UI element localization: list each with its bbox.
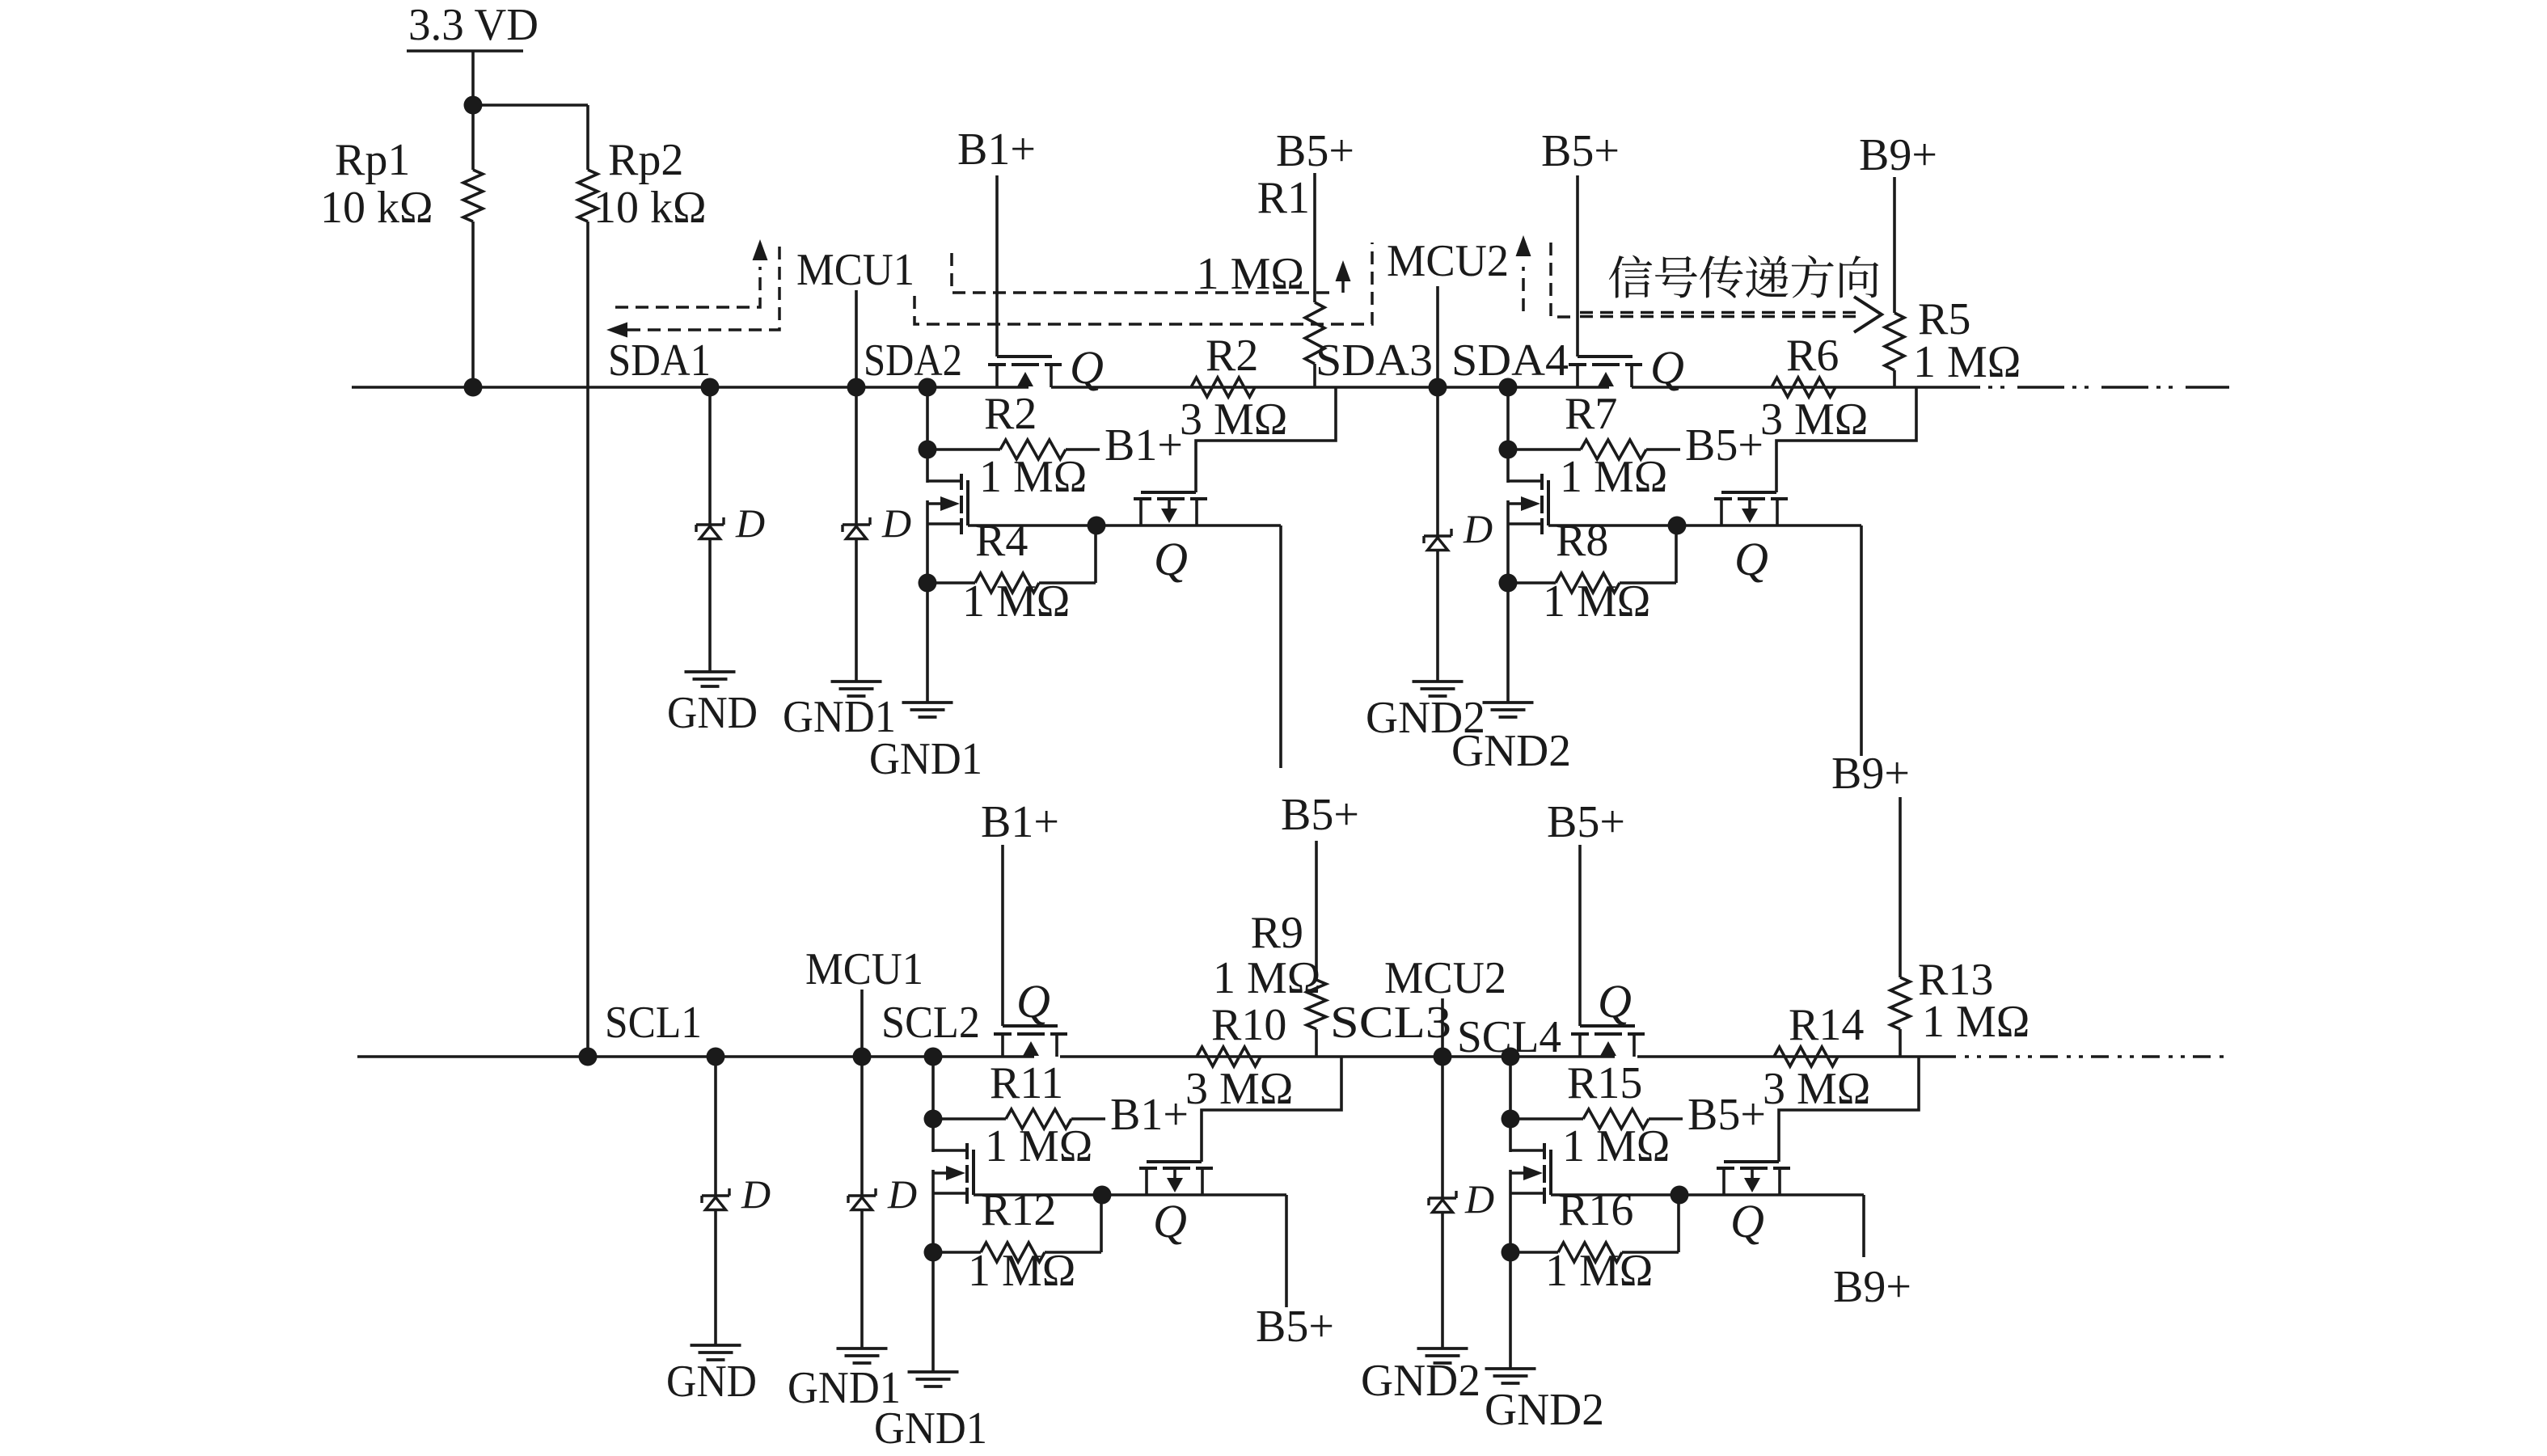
node SDA2-cell gate rail <box>1088 517 1106 535</box>
svg-text:Q: Q <box>1154 533 1188 585</box>
resistor R16 lead left <box>1510 1251 1558 1254</box>
svg-text:R16: R16 <box>1558 1185 1633 1235</box>
wire SDA2-cell M2 drain drop <box>1279 525 1282 768</box>
transistor Q (SCL4-cell left) channel <box>1543 1143 1546 1204</box>
transistor Q (SDA2-cell right) channel <box>1134 497 1207 500</box>
svg-text:B9+: B9+ <box>1833 1262 1911 1312</box>
resistor R8 lead right <box>1620 525 1676 583</box>
wire SDA4-cell M2 drain drop <box>1860 525 1863 756</box>
wire SCL4-cell branch lower <box>1509 1170 1512 1369</box>
svg-text:D: D <box>1463 506 1493 551</box>
wire diode D to GND2 <box>1436 550 1439 682</box>
wire B9+ to R13 <box>1899 797 1902 977</box>
svg-text:D: D <box>1464 1176 1494 1222</box>
transistor Q (SDA4-cell pass) bulk arrow <box>1598 372 1614 386</box>
svg-text:R4: R4 <box>975 516 1028 566</box>
wire MCU1 to SDA bus <box>855 290 858 387</box>
ground GND1 (SCL2 cell) <box>908 1372 959 1386</box>
svg-text:Q: Q <box>1598 975 1632 1028</box>
transistor Q (SCL2-cell right) bulk stem <box>1173 1170 1176 1178</box>
node SCL1 diode branch <box>707 1048 725 1066</box>
svg-text:B5+: B5+ <box>1276 126 1354 176</box>
dashed long path SDA2 to MCU2 <box>914 243 1372 324</box>
ground GND2 (SCL4 cell) <box>1485 1369 1536 1383</box>
node MCU1 on SDA bus <box>847 378 866 397</box>
wire diode D to GND (SCL1) <box>714 1209 717 1345</box>
SCL bus segment 3 <box>1637 1055 1938 1058</box>
transistor Q (SCL4-cell pass) gate bar <box>1580 1024 1635 1028</box>
wire SCL1 node to diode D <box>714 1057 717 1196</box>
svg-text:R2: R2 <box>984 389 1037 439</box>
wire Rp1 upper lead <box>471 105 475 170</box>
svg-text:3.3 VD: 3.3 VD <box>408 0 539 50</box>
SCL bus segment 2 (SCL3/SCL4) <box>1060 1055 1615 1058</box>
svg-text:R9: R9 <box>1251 908 1303 958</box>
SCL bus dash-dot continuation <box>1938 1055 2229 1058</box>
transistor Q (SDA4-cell left) drain tap <box>1508 479 1542 483</box>
SCL bus segment 1 (SCL1/SCL2) <box>357 1055 1034 1058</box>
svg-text:1 MΩ: 1 MΩ <box>1562 1121 1670 1171</box>
resistor R12 lead right <box>1045 1195 1101 1252</box>
svg-text:GND: GND <box>667 688 758 738</box>
wire SCL2-cell branch lower <box>931 1170 935 1372</box>
svg-text:SDA4: SDA4 <box>1451 336 1569 386</box>
node SCL2-cell R12 left <box>924 1243 943 1262</box>
wire SDA4-cell pass gate feed <box>1576 175 1579 357</box>
svg-text:SCL4: SCL4 <box>1457 1012 1561 1062</box>
transistor Q (SDA4-cell left) bulk arrow <box>1508 496 1540 511</box>
dashed arrow row 1 toward right <box>1580 311 1856 314</box>
transistor Q (SCL2-cell left) channel <box>965 1143 969 1204</box>
ground GND2 (SDA4 cell) <box>1483 703 1534 717</box>
wire R1 to SDA bus <box>1313 364 1316 387</box>
node SDA3 <box>1429 378 1447 397</box>
transistor Q (SCL4-cell left) gate bar <box>1549 1150 1552 1195</box>
svg-text:MCU1: MCU1 <box>796 245 914 295</box>
transistor Q (SCL4-cell right) bulk arrow <box>1744 1178 1760 1192</box>
wire Rp2 lower lead crossing SDA bus to SCL bus <box>586 222 589 1057</box>
resistor R12 lead left <box>933 1251 981 1254</box>
transistor Q (SCL2-cell left) source tap <box>933 1192 967 1195</box>
wire Rp1 lower lead to SDA bus <box>471 222 475 387</box>
wire SDA2-cell branch upper <box>926 387 929 483</box>
svg-text:Rp2: Rp2 <box>608 135 683 185</box>
resistor Rp1 <box>463 170 483 222</box>
wire SCL3 node to diode D <box>1441 1057 1444 1198</box>
node Rp1 on SDA bus <box>464 378 483 397</box>
wire SCL2-cell M2 gate feed step <box>1202 1057 1341 1162</box>
resistor R14 (3 MOhm) on bus <box>1774 1047 1838 1066</box>
dashed corner right of MCU2 <box>1551 243 1577 317</box>
svg-text:B1+: B1+ <box>1110 1090 1189 1140</box>
svg-text:R10: R10 <box>1211 1000 1286 1050</box>
wire SDA4-cell branch lower <box>1506 500 1510 703</box>
svg-text:R11: R11 <box>990 1058 1063 1108</box>
transistor Q (SCL4-cell right) gate bar <box>1724 1160 1779 1163</box>
node SDA4-cell gate rail <box>1668 517 1687 535</box>
transistor Q (SDA2-cell pass) bulk arrow <box>1017 372 1033 386</box>
svg-text:1 MΩ: 1 MΩ <box>1560 452 1667 502</box>
transistor Q (SCL2-cell left) bulk arrow <box>933 1166 965 1180</box>
SDA bus segment 3 <box>1632 386 1933 389</box>
dashed arrowhead up into MCU1 <box>753 239 768 260</box>
transistor Q (SCL2-cell pass) bulk arrow <box>1023 1041 1039 1056</box>
wire node to Rp2 branch <box>473 103 588 107</box>
svg-text:B5+: B5+ <box>1547 797 1625 847</box>
resistor R7 lead left <box>1508 448 1581 451</box>
node MCU1 on SCL bus <box>853 1048 872 1066</box>
svg-text:SDA1: SDA1 <box>608 336 711 386</box>
ground GND2 (SCL3) <box>1417 1348 1468 1363</box>
svg-text:D: D <box>741 1171 771 1217</box>
resistor R2 lead left <box>927 448 1000 451</box>
svg-text:R14: R14 <box>1789 1000 1864 1050</box>
wire B9+ to R5 <box>1893 177 1896 313</box>
svg-text:MCU1: MCU1 <box>805 944 923 994</box>
node SDA2-cell R-divider <box>919 441 937 459</box>
dashed arrowhead up toward MCU2 side <box>1336 260 1351 281</box>
transistor Q (SCL2-cell right) left terminal <box>1145 1170 1148 1195</box>
wire SDA1 node to diode D <box>708 387 712 525</box>
svg-text:B1+: B1+ <box>957 124 1036 175</box>
wire SCL4-cell pass gate feed <box>1578 845 1582 1026</box>
wire MCU2 to SCL bus <box>1441 998 1444 1057</box>
svg-text:R6: R6 <box>1786 331 1839 381</box>
dashed signal path MCU2 up arrow <box>1516 235 1531 311</box>
dashed stem of up arrow <box>1341 281 1345 293</box>
wire SDA2-cell M2 gate feed step <box>1196 387 1336 492</box>
transistor Q (SCL4-cell pass) left terminal <box>1578 1036 1582 1057</box>
transistor Q (SCL4-cell left) bulk arrow <box>1510 1166 1543 1180</box>
svg-text:R7: R7 <box>1565 389 1617 439</box>
wire SCL4-cell M2 gate feed step <box>1779 1057 1919 1162</box>
wire Rp2 upper lead <box>586 105 589 170</box>
transistor Q (SDA2-cell pass) gate bar <box>997 355 1052 358</box>
svg-text:1 MΩ: 1 MΩ <box>1913 337 2021 387</box>
svg-text:GND1: GND1 <box>874 1403 987 1454</box>
svg-text:B9+: B9+ <box>1831 749 1910 799</box>
SDA bus segment 1 (SDA1/SDA2) <box>352 386 1029 389</box>
wire SCL2-cell M2 drain drop <box>1285 1195 1288 1307</box>
svg-text:SCL2: SCL2 <box>881 998 980 1048</box>
svg-text:B9+: B9+ <box>1859 130 1937 180</box>
svg-text:Q: Q <box>1730 1195 1764 1247</box>
node SCL3 <box>1434 1048 1452 1066</box>
transistor Q (SDA2-cell left) channel <box>960 474 963 534</box>
wire SCL4-cell branch upper <box>1509 1057 1512 1152</box>
wire SDA2-cell gate rail <box>968 524 1281 527</box>
transistor Q (SCL4-cell right) bulk stem <box>1751 1170 1754 1178</box>
resistor R15 (1 MOhm) <box>1583 1109 1649 1129</box>
wire B5+ to R9 <box>1315 841 1318 980</box>
transistor Q (SCL2-cell pass) channel <box>994 1032 1067 1036</box>
svg-text:Q: Q <box>1153 1195 1187 1247</box>
svg-text:D: D <box>887 1171 917 1217</box>
resistor R11 lead right <box>1071 1117 1105 1120</box>
wire R9 to SCL bus <box>1315 1029 1318 1057</box>
node SCL2 branch <box>924 1048 943 1066</box>
node SDA4-cell R-divider <box>1499 441 1518 459</box>
svg-text:GND1: GND1 <box>869 734 982 784</box>
node SCL2-cell R-divider <box>924 1110 943 1129</box>
svg-text:1 MΩ: 1 MΩ <box>968 1246 1075 1296</box>
transistor Q (SDA4-cell pass) left terminal <box>1576 366 1579 387</box>
transistor Q (SDA2-cell left) gate bar <box>966 480 969 525</box>
resistor R7 lead right <box>1646 448 1680 451</box>
wire SDA4-cell M2 gate feed step <box>1776 387 1916 492</box>
transistor Q (SCL4-cell pass) bulk arrow <box>1600 1041 1616 1056</box>
svg-text:GND2: GND2 <box>1451 726 1571 776</box>
svg-text:3 MΩ: 3 MΩ <box>1180 395 1287 445</box>
node SDA2 branch <box>919 378 937 397</box>
wire MCU1 node to diode D (SCL) <box>860 1057 864 1196</box>
svg-text:GND2: GND2 <box>1485 1385 1604 1435</box>
dashed arrow row 2 toward right <box>1580 315 1856 319</box>
wire diode D to GND1 <box>855 538 858 682</box>
svg-text:Q: Q <box>1070 341 1104 394</box>
resistor R8 (1 MOhm) <box>1556 573 1620 593</box>
node SCL4-cell gate rail <box>1671 1186 1689 1205</box>
transistor Q (SCL4-cell right) right terminal <box>1778 1170 1781 1195</box>
svg-text:SCL1: SCL1 <box>605 998 702 1048</box>
resistor R4 lead right <box>1039 525 1096 583</box>
svg-text:D: D <box>735 500 765 546</box>
svg-text:Q: Q <box>1016 975 1050 1028</box>
transistor Q (SCL4-cell right) channel <box>1717 1167 1790 1170</box>
transistor Q (SDA4-cell right) bulk arrow <box>1742 509 1758 523</box>
node SDA1 <box>701 378 720 397</box>
transistor Q (SDA2-cell right) left terminal <box>1139 500 1143 525</box>
svg-text:1 MΩ: 1 MΩ <box>985 1121 1092 1171</box>
svg-text:MCU2: MCU2 <box>1387 236 1509 286</box>
transistor Q (SDA4-cell right) bulk stem <box>1748 500 1751 509</box>
transistor Q (SCL2-cell right) channel <box>1139 1167 1213 1170</box>
svg-text:R15: R15 <box>1567 1058 1642 1108</box>
transistor Q (SDA4-cell pass) channel <box>1569 363 1642 366</box>
transistor Q (SCL2-cell right) gate bar <box>1147 1160 1202 1163</box>
transistor Q (SDA4-cell left) channel <box>1540 474 1544 534</box>
resistor R2 (3 MOhm) on bus <box>1191 378 1255 397</box>
caption: signal transfer direction (Chinese) <box>1609 255 1878 298</box>
resistor R1 (1 MOhm pull-up) <box>1305 302 1324 364</box>
wire MCU1 node to diode D <box>855 387 858 525</box>
ground GND1 (SDA2 cell) <box>902 703 953 717</box>
node SCL2-cell gate rail <box>1093 1186 1112 1205</box>
node SCL4 branch <box>1502 1048 1520 1066</box>
wire SCL2-cell branch upper <box>931 1057 935 1152</box>
transistor Q (SCL4-cell pass) right terminal <box>1633 1036 1636 1057</box>
dashed arrowhead left onto SDA1 <box>606 323 627 338</box>
diode D on SCL1 <box>702 1188 729 1210</box>
diode D on MCU1 line <box>843 517 870 539</box>
svg-text:1 MΩ: 1 MΩ <box>962 576 1070 627</box>
transistor Q (SCL4-cell right) left terminal <box>1722 1170 1725 1195</box>
transistor Q (SCL2-cell left) gate bar <box>972 1150 975 1195</box>
diode D on SCL3 <box>1429 1191 1456 1213</box>
power rail 3.3 VD underline <box>407 49 523 52</box>
svg-text:3 MΩ: 3 MΩ <box>1760 395 1868 445</box>
wire R5 to SDA bus <box>1893 370 1896 387</box>
wire diode D to GND2 (SCL3) <box>1441 1212 1444 1348</box>
node SCL1 (Rp2 junction) <box>579 1048 598 1066</box>
svg-text:MCU2: MCU2 <box>1384 953 1506 1003</box>
transistor Q (SCL2-cell left) drain tap <box>933 1149 967 1152</box>
wire diode D to GND <box>708 538 712 672</box>
resistor R11 (1 MOhm) <box>1006 1109 1071 1129</box>
transistor Q (SDA2-cell right) right terminal <box>1195 500 1198 525</box>
transistor Q (SCL4-cell left) drain tap <box>1510 1149 1544 1152</box>
SDA bus dash-dot continuation <box>1933 386 2229 389</box>
node SDA4 branch <box>1499 378 1518 397</box>
svg-text:D: D <box>881 500 911 546</box>
diode D on SDA3 <box>1424 529 1451 551</box>
node SDA2-cell R4 left <box>919 574 937 593</box>
svg-text:R8: R8 <box>1556 516 1608 566</box>
resistor R8 lead left <box>1508 581 1556 585</box>
transistor Q (SCL2-cell pass) right terminal <box>1055 1036 1058 1057</box>
transistor Q (SDA2-cell left) source tap <box>927 522 961 525</box>
svg-text:B5+: B5+ <box>1256 1302 1334 1352</box>
transistor Q (SDA4-cell pass) right terminal <box>1630 366 1633 387</box>
transistor Q (SDA4-cell pass) gate bar <box>1578 355 1633 358</box>
transistor Q (SCL2-cell pass) left terminal <box>1001 1036 1004 1057</box>
wire SDA2-cell branch lower <box>926 500 929 703</box>
svg-text:B1+: B1+ <box>1105 420 1183 471</box>
transistor Q (SDA2-cell left) bulk arrow <box>927 496 960 511</box>
svg-text:B5+: B5+ <box>1281 790 1359 840</box>
svg-text:1 MΩ: 1 MΩ <box>979 452 1087 502</box>
svg-text:10 kΩ: 10 kΩ <box>320 183 433 233</box>
svg-text:3 MΩ: 3 MΩ <box>1763 1064 1870 1114</box>
svg-text:1 MΩ: 1 MΩ <box>1922 997 2030 1047</box>
svg-text:10 kΩ: 10 kΩ <box>593 183 707 233</box>
resistor R5 (1 MOhm pull-up) <box>1885 313 1904 370</box>
transistor Q (SCL2-cell right) bulk arrow <box>1167 1178 1183 1192</box>
svg-text:R12: R12 <box>981 1185 1056 1235</box>
svg-text:SCL3: SCL3 <box>1330 998 1451 1048</box>
wire SCL4-cell M2 drain drop <box>1862 1195 1865 1257</box>
transistor Q (SDA4-cell left) source tap <box>1508 522 1542 525</box>
transistor Q (SDA4-cell right) right terminal <box>1776 500 1779 525</box>
node SDA4-cell R8 left <box>1499 574 1518 593</box>
transistor Q (SCL2-cell pass) gate bar <box>1003 1024 1058 1028</box>
ground GND (SCL1) <box>691 1345 741 1360</box>
ground GND1 (MCU1) <box>831 682 882 696</box>
transistor Q (SDA4-cell right) left terminal <box>1720 500 1723 525</box>
resistor R11 lead left <box>933 1117 1006 1120</box>
transistor Q (SDA4-cell right) gate bar <box>1721 491 1776 494</box>
resistor R4 (1 MOhm) <box>975 573 1039 593</box>
svg-text:Rp1: Rp1 <box>335 135 410 185</box>
resistor R12 (1 MOhm) <box>981 1243 1045 1262</box>
resistor R9 (1 MOhm pull-up) <box>1307 980 1326 1029</box>
resistor Rp2 <box>578 170 598 222</box>
wire SDA3 node to diode D <box>1436 387 1439 536</box>
dashed signal path MCU1 to SDA1 <box>624 247 779 330</box>
wire diode D to GND1 (SCL) <box>860 1209 864 1348</box>
svg-text:Q: Q <box>1650 341 1684 394</box>
svg-text:3 MΩ: 3 MΩ <box>1185 1064 1293 1114</box>
wire SDA4-cell gate rail <box>1548 524 1861 527</box>
svg-text:GND: GND <box>666 1357 757 1407</box>
resistor R7 (1 MOhm) <box>1581 440 1646 459</box>
resistor R15 lead right <box>1649 1117 1683 1120</box>
resistor R13 (1 MOhm pull-up) <box>1890 977 1910 1029</box>
wire SCL2-cell pass gate feed <box>1001 845 1004 1026</box>
ground GND (SDA1) <box>685 672 736 686</box>
wire SCL4-cell gate rail <box>1551 1193 1864 1196</box>
transistor Q (SDA2-cell right) gate bar <box>1141 491 1196 494</box>
node 3.3VD junction <box>464 96 483 115</box>
wire 3.3VD down to node <box>471 51 475 105</box>
node SCL4-cell R16 left <box>1502 1243 1520 1262</box>
svg-text:1 MΩ: 1 MΩ <box>1213 953 1320 1003</box>
svg-text:B1+: B1+ <box>981 797 1059 847</box>
svg-text:R1: R1 <box>1257 173 1310 223</box>
svg-text:B5+: B5+ <box>1541 126 1620 176</box>
resistor R16 (1 MOhm) <box>1558 1243 1622 1262</box>
wire SDA4-cell branch upper <box>1506 387 1510 483</box>
resistor R2 (1 MOhm) <box>1000 440 1066 459</box>
svg-text:1 MΩ: 1 MΩ <box>1545 1246 1653 1296</box>
transistor Q (SCL4-cell pass) channel <box>1571 1032 1645 1036</box>
svg-text:1 MΩ: 1 MΩ <box>1543 576 1650 627</box>
resistor R6 (3 MOhm) on bus <box>1772 378 1835 397</box>
transistor Q (SDA2-cell right) bulk stem <box>1168 500 1171 509</box>
wire MCU2 to SDA bus <box>1436 286 1439 387</box>
wire SDA2-cell pass gate feed <box>995 175 999 357</box>
svg-text:R2: R2 <box>1206 331 1258 381</box>
wire MCU1 to SCL bus <box>860 990 864 1057</box>
transistor Q (SDA2-cell pass) right terminal <box>1050 366 1053 387</box>
resistor R10 (3 MOhm) on bus <box>1197 1047 1261 1066</box>
ground GND2 (SDA3) <box>1413 682 1464 696</box>
svg-text:SDA2: SDA2 <box>864 336 962 386</box>
node SCL4-cell R-divider <box>1502 1110 1520 1129</box>
transistor Q (SDA2-cell pass) channel <box>988 363 1062 366</box>
dashed corner right of MCU1 <box>952 253 1330 293</box>
svg-text:Q: Q <box>1734 533 1768 585</box>
resistor R16 lead right <box>1622 1195 1679 1252</box>
SDA bus segment 2 (SDA3/SDA4) <box>1051 386 1609 389</box>
resistor R2 lead right <box>1066 448 1100 451</box>
diode D on MCU1 line (SCL) <box>848 1188 876 1210</box>
dashed signal path SDA1 to MCU1 <box>615 267 760 307</box>
resistor R4 lead left <box>927 581 975 585</box>
transistor Q (SDA2-cell left) drain tap <box>927 479 961 483</box>
transistor Q (SDA4-cell right) channel <box>1714 497 1788 500</box>
resistor R15 lead left <box>1510 1117 1583 1120</box>
svg-text:SDA3: SDA3 <box>1316 336 1433 386</box>
wire B5+ to R1 <box>1313 173 1316 302</box>
svg-text:B5+: B5+ <box>1687 1090 1766 1140</box>
dashed right arrowhead (signal direction) <box>1854 297 1882 332</box>
transistor Q (SCL2-cell right) right terminal <box>1201 1170 1204 1195</box>
diode D on SDA1 <box>696 517 724 539</box>
transistor Q (SDA2-cell right) bulk arrow <box>1161 509 1177 523</box>
svg-text:GND2: GND2 <box>1361 1356 1480 1406</box>
svg-text:B5+: B5+ <box>1685 420 1763 471</box>
transistor Q (SDA2-cell pass) left terminal <box>995 366 999 387</box>
transistor Q (SCL4-cell left) source tap <box>1510 1192 1544 1195</box>
ground GND1 (MCU1 SCL) <box>837 1348 888 1363</box>
wire R13 to SCL bus <box>1899 1029 1902 1057</box>
transistor Q (SDA4-cell left) gate bar <box>1547 480 1550 525</box>
wire SCL2-cell gate rail <box>974 1193 1286 1196</box>
